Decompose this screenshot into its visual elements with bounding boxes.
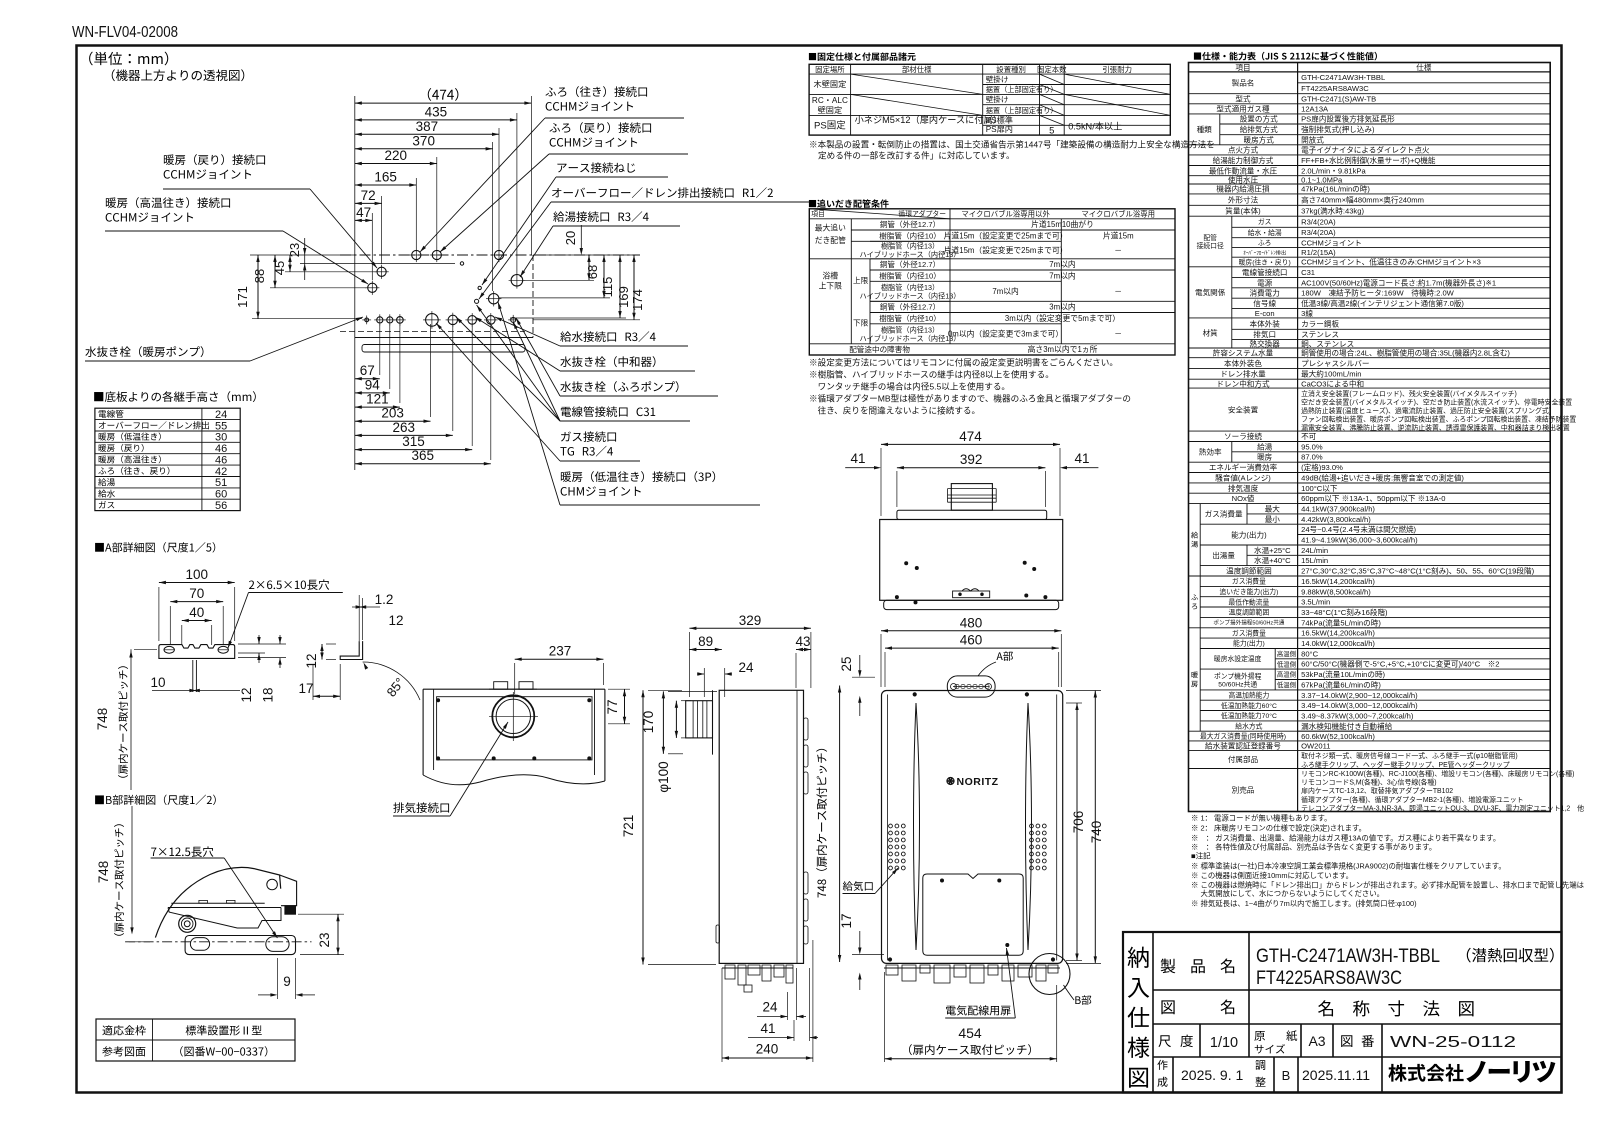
svg-text:最低作動流量: 最低作動流量 — [1229, 597, 1270, 606]
svg-text:本体外装色: 本体外装色 — [1224, 358, 1262, 368]
svg-text:24: 24 — [738, 660, 754, 675]
svg-text:固定本数: 固定本数 — [1037, 65, 1067, 74]
svg-text:748: 748 — [96, 861, 111, 884]
top view bottom row ports — [365, 318, 369, 322]
svg-text:給水方式: 給水方式 — [1235, 722, 1262, 731]
title block grid lines — [1152, 932, 1154, 1093]
svg-text:24L/min: 24L/min — [1301, 546, 1328, 555]
svg-text:329: 329 — [739, 613, 762, 628]
svg-text:高温側: 高温側 — [1277, 649, 1296, 658]
svg-text:180W 凍結予防ヒータ:169W 待機時:2.0W: 180W 凍結予防ヒータ:169W 待機時:2.0W — [1301, 288, 1455, 298]
spec table group 配管接続口径 — [1231, 216, 1233, 267]
svg-text:下限: 下限 — [853, 318, 869, 327]
spec table lower rows — [1189, 441, 1551, 443]
svg-text:24号~0.4号(2.4号未満は間欠燃焼): 24号~0.4号(2.4号未満は間欠燃焼) — [1301, 524, 1416, 534]
top view horizontal dimension chain — [355, 102, 532, 104]
front view NORITZ logo — [947, 777, 954, 784]
svg-text:100: 100 — [186, 567, 209, 582]
svg-text:70: 70 — [189, 586, 204, 601]
svg-text:20: 20 — [563, 231, 578, 245]
svg-text:30: 30 — [215, 432, 227, 444]
callout ガス接続口 TG R3／4 — [561, 431, 616, 442]
svg-text:銅管（外径12.7）: 銅管（外径12.7） — [880, 259, 940, 269]
svg-text:GTH-C2471AW3H-TBBL: GTH-C2471AW3H-TBBL — [1256, 945, 1440, 967]
svg-text:435: 435 — [425, 104, 448, 119]
top view port 給湯 — [511, 275, 523, 287]
title block label 製品名 — [1161, 959, 1176, 974]
svg-text:41: 41 — [850, 451, 865, 466]
A-part center tab — [192, 660, 194, 692]
A-part side dims 12 18 — [258, 635, 260, 644]
callout ふろ（往き）接続口 — [545, 86, 647, 97]
svg-text:循環アダプター: 循環アダプター — [898, 209, 946, 218]
side view dim 89 — [689, 649, 721, 651]
front view bottom dim 454 pitch — [885, 1058, 1057, 1060]
svg-text:樹脂管（内径10）: 樹脂管（内径10） — [879, 230, 941, 240]
svg-text:PS固定: PS固定 — [814, 120, 846, 132]
drawing title 名称寸法図 — [1318, 1000, 1473, 1016]
exhaust detail screws — [437, 699, 440, 702]
svg-text:循環アダプター(各種)、循環アダプターMB2-1(各種)、増: 循環アダプター(各種)、循環アダプターMB2-1(各種)、増設電源ユニット — [1301, 795, 1523, 804]
svg-text:出湯量: 出湯量 — [1212, 550, 1235, 560]
A-part heading ■A部詳細図（尺度1／5） — [95, 542, 215, 552]
svg-text:12A13A: 12A13A — [1301, 105, 1329, 114]
spec table outer frame — [1189, 63, 1551, 812]
svg-text:37kg(満水時:43kg): 37kg(満水時:43kg) — [1301, 206, 1364, 216]
B-part right block — [280, 875, 297, 906]
svg-text:※ ： 各特性値及び付属部品、別売品は予告なく変更する事があ: ※ ： 各特性値及び付属部品、別売品は予告なく変更する事があります。 — [1191, 842, 1436, 851]
svg-text:60: 60 — [215, 489, 227, 501]
svg-text:74kPa(流量5L/minの時): 74kPa(流量5L/minの時) — [1301, 617, 1381, 627]
svg-text:項目: 項目 — [811, 210, 825, 218]
svg-text:電源: 電源 — [1257, 278, 1273, 287]
svg-text:3.49~8.37kW(3,000~7,200kcal/h): 3.49~8.37kW(3,000~7,200kcal/h) — [1301, 712, 1414, 721]
svg-text:165: 165 — [374, 170, 397, 185]
fixing spec table grid — [809, 64, 1170, 135]
svg-text:7m以内: 7m以内 — [1049, 271, 1076, 281]
svg-text:暖房水設定温度: 暖房水設定温度 — [1214, 654, 1262, 663]
fitting height heading ■底板よりの各継手高さ（mm） — [94, 391, 256, 402]
top view port 暖房低温往き — [489, 294, 499, 304]
svg-text:49dB(給湯+追いだき+暖房:無響音室での測定値): 49dB(給湯+追いだき+暖房:無響音室での測定値) — [1301, 472, 1464, 482]
svg-text:ハイブリッドホース（内径13）: ハイブリッドホース（内径13） — [860, 291, 961, 300]
svg-text:カラー鋼板: カラー鋼板 — [1301, 318, 1339, 328]
svg-text:最小: 最小 — [1265, 514, 1281, 524]
spec table ふろ group — [1199, 576, 1201, 628]
svg-text:ポンプ揚外揚程50/60Hz共通: ポンプ揚外揚程50/60Hz共通 — [1213, 619, 1284, 627]
svg-text:C31: C31 — [1301, 268, 1315, 277]
svg-text:169: 169 — [616, 286, 631, 308]
svg-text:5: 5 — [1049, 126, 1054, 137]
svg-text:72: 72 — [361, 188, 376, 203]
svg-text:片道15m: 片道15m — [1103, 231, 1134, 241]
B-part cam body arc — [155, 867, 280, 937]
B-part callout 7×12.5長穴 — [151, 846, 213, 857]
svg-text:88: 88 — [252, 269, 267, 283]
svg-text:2.0L/min・9.81kPa: 2.0L/min・9.81kPa — [1301, 166, 1366, 175]
svg-text:ガス: ガス — [1258, 217, 1272, 226]
svg-text:12: 12 — [388, 613, 403, 628]
svg-text:18: 18 — [261, 687, 276, 702]
svg-text:3.49~14.0kW(3,000~12,000kcal/h: 3.49~14.0kW(3,000~12,000kcal/h) — [1301, 701, 1418, 710]
side view body — [719, 690, 803, 963]
svg-text:低温側: 低温側 — [1277, 680, 1296, 689]
front view top screws — [913, 693, 916, 696]
svg-text:片道15m10曲がり: 片道15m10曲がり — [1031, 219, 1094, 229]
svg-text:※本製品の設置・転倒防止の措置は、国土交通省告示第1447号: ※本製品の設置・転倒防止の措置は、国土交通省告示第1447号「建築設備の構造耐力… — [809, 139, 1215, 150]
svg-text:16.5kW(14,200kcal/h): 16.5kW(14,200kcal/h) — [1301, 577, 1375, 586]
svg-text:樹脂管（内径10）: 樹脂管（内径10） — [879, 313, 941, 323]
B-part base plate — [185, 936, 295, 955]
svg-text:往き、戻りを間違えないように接続する。: 往き、戻りを間違えないように接続する。 — [809, 405, 980, 416]
svg-text:480: 480 — [960, 615, 983, 630]
svg-text:387: 387 — [416, 119, 439, 134]
spec table 暖房 group — [1199, 628, 1201, 731]
A-part dims 100 70 40 — [159, 582, 235, 584]
svg-text:80°C: 80°C — [1301, 649, 1318, 658]
company logo 株式会社ノーリツ — [1388, 1064, 1463, 1082]
svg-text:87.0%: 87.0% — [1301, 453, 1323, 462]
front view body — [882, 691, 1063, 964]
svg-text:0.1~1.0MPa: 0.1~1.0MPa — [1301, 176, 1343, 185]
svg-text:7m以内: 7m以内 — [992, 286, 1019, 296]
svg-text:使用水圧: 使用水圧 — [1228, 175, 1259, 185]
rear view dim 474 — [881, 443, 1060, 445]
B-part centerline — [125, 941, 311, 943]
exhaust detail box — [423, 688, 605, 690]
svg-text:ガス消費量: ガス消費量 — [1232, 628, 1266, 637]
svg-text:25: 25 — [839, 656, 854, 671]
svg-text:－: － — [1114, 330, 1122, 339]
svg-text:据置（上部固定有り）: 据置（上部固定有り） — [986, 85, 1058, 94]
svg-text:※ 排気延長は、1~4曲がり7m以内で施工します。(排気筒口: ※ 排気延長は、1~4曲がり7m以内で施工します。(排気筒口径:φ100) — [1191, 899, 1417, 908]
callout 暖房（高温往き）接続口 — [106, 197, 230, 208]
svg-text:0m以内（設定変更で3mまで可）: 0m以内（設定変更で3mまで可） — [948, 329, 1063, 339]
frame ref table 適応金枠 — [96, 1019, 295, 1061]
svg-text:748: 748 — [95, 708, 110, 731]
svg-text:設置の方式: 設置の方式 — [1240, 114, 1278, 124]
svg-text:16.5kW(14,200kcal/h): 16.5kW(14,200kcal/h) — [1301, 629, 1375, 638]
svg-text:47kPa(16L/minの時): 47kPa(16L/minの時) — [1301, 185, 1370, 194]
svg-text:プレシャスシルバー: プレシャスシルバー — [1301, 359, 1369, 368]
svg-text:ふろ継手クリップ、ヘッダー継手クリップ、PE管ヘッダークリッ: ふろ継手クリップ、ヘッダー継手クリップ、PE管ヘッダークリップ — [1301, 760, 1510, 769]
reheating table header diag — [809, 209, 950, 219]
front view vent hole grids — [889, 824, 893, 828]
svg-text:365: 365 — [412, 448, 435, 463]
svg-text:PS扉内: PS扉内 — [986, 124, 1013, 134]
svg-text:12: 12 — [239, 687, 254, 702]
svg-text:銅管使用の場合:24L、樹脂管使用の場合:35L(機器内2.: 銅管使用の場合:24L、樹脂管使用の場合:35L(機器内2.8L含む) — [1301, 348, 1510, 358]
svg-text:壁掛け: 壁掛け — [986, 74, 1009, 84]
svg-text:熱交換器: 熱交換器 — [1250, 338, 1281, 348]
svg-text:R3/4(20A): R3/4(20A) — [1301, 218, 1336, 227]
svg-text:接続口径: 接続口径 — [1197, 241, 1224, 250]
svg-text:電気関係: 電気関係 — [1195, 287, 1226, 297]
svg-text:1/10: 1/10 — [1210, 1035, 1238, 1051]
svg-text:熱効率: 熱効率 — [1199, 447, 1222, 457]
callout アース接続ねじ — [557, 162, 635, 173]
svg-text:最大追い: 最大追い — [815, 223, 846, 233]
top view dimension extension lines — [530, 96, 532, 255]
svg-text:配管: 配管 — [1203, 233, 1217, 242]
callout 暖房（戻り）接続口 — [164, 154, 265, 165]
svg-text:製品名: 製品名 — [1232, 78, 1255, 88]
svg-text:温度調節範囲: 温度調節範囲 — [1226, 566, 1272, 576]
svg-text:空だき安全装置(バイメタルスイッチ)、空だき防止装置(水流ス: 空だき安全装置(バイメタルスイッチ)、空だき防止装置(水流スイッチ)、停電時安全… — [1301, 398, 1572, 407]
B-part slot holes — [190, 938, 209, 951]
svg-text:高温加熱能力: 高温加熱能力 — [1229, 691, 1270, 700]
title block vertical label 納入仕様図 — [1128, 947, 1149, 968]
side view right edge clips — [804, 718, 809, 740]
svg-text:95.0%: 95.0% — [1301, 442, 1323, 451]
side view dim 170 — [662, 691, 664, 753]
svg-text:CCHMジョイント: CCHMジョイント — [1301, 238, 1362, 247]
svg-text:51: 51 — [215, 477, 227, 489]
svg-text:46: 46 — [215, 443, 227, 455]
svg-text:460: 460 — [960, 633, 983, 648]
exhaust detail top tabs — [494, 682, 508, 690]
svg-text:NORITZ: NORITZ — [957, 776, 999, 788]
top view ports on centerline — [412, 250, 421, 259]
svg-text:4.42kW(3,800kcal/h): 4.42kW(3,800kcal/h) — [1301, 515, 1371, 524]
svg-text:だき配管: だき配管 — [815, 235, 846, 245]
svg-text:配管途中の障害物: 配管途中の障害物 — [849, 344, 910, 354]
svg-text:370: 370 — [412, 133, 435, 148]
svg-text:※ ： ガス消費量、出湯量、給湯能力はガス種13Aの値です。: ※ ： ガス消費量、出湯量、給湯能力はガス種13Aの値です。ガス種により若干異な… — [1191, 834, 1500, 843]
svg-text:※ 1： 電源コードが無い機種もあります。: ※ 1： 電源コードが無い機種もあります。 — [1191, 813, 1332, 822]
front view A-part hanger oval — [947, 676, 995, 697]
svg-text:721: 721 — [621, 815, 636, 838]
svg-text:上下限: 上下限 — [819, 281, 843, 290]
svg-text:テレコンアダプターMA-3,NR-3A、即湯ユニットQU-3: テレコンアダプターMA-3,NR-3A、即湯ユニットQU-3、DVU-3F、電力… — [1301, 803, 1584, 812]
svg-text:※ この機器は側面近接10mmに対応しています。: ※ この機器は側面近接10mmに対応しています。 — [1191, 871, 1353, 880]
svg-text:R1/2(15A): R1/2(15A) — [1301, 248, 1336, 257]
fixing spec diagonal slashes — [851, 74, 983, 94]
svg-text:マイクロバブル浴専用: マイクロバブル浴専用 — [1081, 210, 1155, 219]
svg-text:(定格)93.0%: (定格)93.0% — [1301, 462, 1343, 472]
svg-text:0.5kN/本以上: 0.5kN/本以上 — [1068, 121, 1122, 132]
svg-text:高温側: 高温側 — [1277, 670, 1296, 679]
svg-text:本体外装: 本体外装 — [1250, 318, 1281, 328]
svg-text:45: 45 — [272, 261, 287, 275]
rear view dim 392 and 41s — [897, 467, 1046, 469]
callout オーバーフロー／ドレン排出接続口 — [552, 187, 773, 198]
svg-text:CaCO3による中和: CaCO3による中和 — [1301, 378, 1364, 388]
front view dim 480 — [881, 630, 1061, 632]
svg-text:14.0kW(12,000kcal/h): 14.0kW(12,000kcal/h) — [1301, 639, 1375, 648]
svg-text:CCHMジョイント、低温往きのみ:CHMジョイント×3: CCHMジョイント、低温往きのみ:CHMジョイント×3 — [1301, 257, 1481, 267]
fitting height table grid — [95, 408, 240, 510]
svg-text:ドレン中和方式: ドレン中和方式 — [1216, 378, 1270, 388]
svg-text:WN-FLV04-02008: WN-FLV04-02008 — [72, 24, 178, 41]
exhaust detail inner panel — [437, 697, 592, 760]
svg-text:240: 240 — [756, 1042, 779, 1057]
spec table group 材質 — [1231, 318, 1233, 348]
svg-text:10: 10 — [150, 675, 165, 690]
svg-text:材質: 材質 — [1203, 328, 1219, 338]
svg-text:24: 24 — [215, 409, 227, 421]
svg-text:エネルギー消費効率: エネルギー消費効率 — [1209, 462, 1278, 472]
svg-text:信号線: 信号線 — [1253, 298, 1276, 308]
svg-text:電子イグナイタによるダイレクト点火: 電子イグナイタによるダイレクト点火 — [1301, 145, 1430, 155]
top view bottom dimension chain — [355, 378, 380, 380]
svg-text:能力(出力): 能力(出力) — [1231, 529, 1267, 539]
top view bottom bracket strip — [362, 345, 525, 353]
svg-text:17: 17 — [839, 913, 854, 928]
svg-text:3.37~14.0kW(2,900~12,000kcal/h: 3.37~14.0kW(2,900~12,000kcal/h) — [1301, 691, 1418, 700]
callout 水抜き栓（ふろポンプ） — [560, 381, 678, 392]
svg-text:203: 203 — [381, 406, 404, 421]
svg-text:15L/min: 15L/min — [1301, 556, 1328, 565]
svg-text:ステンレス: ステンレス — [1301, 330, 1339, 339]
svg-text:銅、ステンレス: 銅、ステンレス — [1301, 338, 1354, 348]
exhaust detail break wave — [423, 775, 605, 785]
svg-text:9.88kW(8,500kcal/h): 9.88kW(8,500kcal/h) — [1301, 587, 1371, 596]
top view right extension lines — [533, 254, 640, 256]
top view port 暖房高温往き — [368, 283, 377, 292]
side view bottom pipes — [722, 967, 793, 969]
svg-text:給水装置認証登録番号: 給水装置認証登録番号 — [1205, 740, 1281, 750]
svg-text:開放式: 開放式 — [1301, 135, 1324, 145]
svg-text:点火方式: 点火方式 — [1228, 145, 1259, 155]
callout ふろ（戻り）接続口 — [549, 122, 651, 133]
svg-text:NOx値: NOx値 — [1232, 493, 1255, 503]
svg-text:237: 237 — [549, 644, 572, 659]
A-part callout 2×6.5×10長穴 — [249, 579, 329, 590]
A-part section profile (right) — [340, 641, 362, 659]
B-part dim 23 — [337, 914, 339, 954]
svg-text:低温加熱能力60°C: 低温加熱能力60°C — [1221, 701, 1277, 710]
svg-text:115: 115 — [600, 277, 615, 298]
svg-text:別売品: 別売品 — [1232, 785, 1255, 795]
spec table value column row lines — [1298, 441, 1551, 443]
svg-text:33~48°C(1°C刻み16段階): 33~48°C(1°C刻み16段階) — [1301, 607, 1388, 617]
A-part slot holes — [164, 646, 174, 653]
svg-text:許容システム水量: 許容システム水量 — [1213, 348, 1274, 358]
svg-text:7m以内: 7m以内 — [1049, 259, 1076, 269]
svg-text:消費電力: 消費電力 — [1250, 288, 1280, 298]
rear view top cap strip — [897, 510, 1047, 519]
svg-text:給湯: 給湯 — [1257, 441, 1273, 451]
svg-text:据置（上部固定有り）: 据置（上部固定有り） — [986, 106, 1058, 115]
side view left small bump — [716, 925, 720, 943]
svg-text:壁掛け: 壁掛け — [986, 94, 1009, 104]
svg-text:44.1kW(37,900kcal/h): 44.1kW(37,900kcal/h) — [1301, 505, 1375, 514]
svg-text:OW2011: OW2011 — [1301, 741, 1330, 750]
svg-text:27°C,30°C,32°C,35°C,37°C~48°C(: 27°C,30°C,32°C,35°C,37°C~48°C(1°C刻み)、50、… — [1301, 566, 1534, 576]
svg-text:41: 41 — [1074, 451, 1089, 466]
exhaust detail dim 77 — [624, 689, 626, 724]
svg-text:低温加熱能力70°C: 低温加熱能力70°C — [1221, 711, 1277, 720]
spec table 熱効率 group — [1231, 442, 1233, 463]
svg-text:仕様: 仕様 — [1416, 62, 1432, 72]
A-part bracket body — [159, 645, 235, 659]
rear view bottom strip — [884, 600, 1059, 609]
spec table 安全装置 row — [1189, 430, 1551, 432]
front view inner columns — [887, 695, 889, 961]
fixing spec heading ■固定仕様と付属部品諸元 — [809, 52, 916, 61]
B-part arm — [171, 902, 264, 904]
rear view exhaust collar — [951, 484, 992, 511]
svg-text:温度調節範囲: 温度調節範囲 — [1229, 608, 1270, 617]
side view dim 24 — [697, 673, 704, 675]
svg-text:種類: 種類 — [1197, 124, 1213, 134]
svg-text:付属部品: 付属部品 — [1228, 754, 1259, 764]
callout 電線管接続口 C31 — [561, 406, 655, 417]
svg-text:FF+FB+水比例制御(水量サーボ)+Q機能: FF+FB+水比例制御(水量サーボ)+Q機能 — [1301, 155, 1436, 165]
svg-text:ドレン排水量: ドレン排水量 — [1220, 369, 1266, 379]
B-part hatched block — [285, 906, 296, 915]
svg-text:追いだき能力(出力): 追いだき能力(出力) — [1219, 587, 1278, 596]
spec table group 電気関係 — [1231, 267, 1233, 318]
svg-text:60.6kW(52,100kcal/h): 60.6kW(52,100kcal/h) — [1301, 732, 1375, 741]
svg-text:3.5L/min: 3.5L/min — [1301, 598, 1330, 607]
svg-text:FT4225ARS8AW3C: FT4225ARS8AW3C — [1301, 84, 1369, 93]
title block outer frame — [1123, 932, 1562, 1093]
svg-text:小ネジM5×12（扉内ケースに付属）: 小ネジM5×12（扉内ケースに付属） — [855, 114, 1002, 125]
svg-text:GTH-C2471(S)AW-TB: GTH-C2471(S)AW-TB — [1301, 95, 1376, 104]
svg-text:立消え安全装置(フレームロッド)、残火安全装置(バイメタルス: 立消え安全装置(フレームロッド)、残火安全装置(バイメタルスイッチ) — [1301, 389, 1517, 398]
svg-text:174: 174 — [630, 289, 645, 311]
svg-text:42: 42 — [215, 466, 227, 478]
svg-text:上限: 上限 — [853, 276, 869, 285]
callout 水抜き栓（中和器） — [560, 356, 655, 367]
svg-text:排気口: 排気口 — [1253, 329, 1276, 339]
svg-text:質量(本体): 質量(本体) — [1225, 206, 1261, 216]
callout 電線管 extra leaders — [513, 322, 560, 421]
rear view center bracket — [953, 591, 990, 598]
front view wiring door — [923, 874, 1023, 955]
front view dims 706 740 right — [1076, 703, 1078, 961]
svg-text:PS標準: PS標準 — [986, 115, 1013, 125]
svg-text:GTH-C2471AW3H-TBBL: GTH-C2471AW3H-TBBL — [1301, 73, 1385, 82]
svg-text:171: 171 — [235, 286, 250, 308]
top view left vertical dims 23 45 88 171 — [304, 238, 306, 280]
spec table header row — [1189, 71, 1551, 73]
title block label 原紙サイズ — [1254, 1031, 1265, 1041]
callout 水抜き栓（暖房ポンプ） — [85, 346, 203, 357]
svg-text:※ この機器は燃焼時に「ドレン排出口」からドレンが排出されま: ※ この機器は燃焼時に「ドレン排出口」からドレンが排出されます。必ず排水配管を設… — [1191, 880, 1585, 889]
exhaust detail dim 237 — [515, 658, 604, 660]
side view bottom dims 24 41 240 — [787, 992, 789, 1020]
svg-text:外形寸法: 外形寸法 — [1228, 194, 1259, 204]
svg-text:銅管（外径12.7）: 銅管（外径12.7） — [880, 219, 940, 229]
svg-text:ガス消費量: ガス消費量 — [1205, 509, 1243, 519]
svg-text:B: B — [1282, 1068, 1291, 1083]
svg-text:■注記: ■注記 — [1191, 851, 1211, 861]
top view small ports アース・ドレン — [478, 286, 481, 289]
spec table 給湯 group — [1199, 504, 1201, 576]
svg-text:固定場所: 固定場所 — [815, 65, 845, 74]
svg-text:設置種別: 設置種別 — [996, 65, 1026, 74]
svg-text:給湯能力制御方式: 給湯能力制御方式 — [1213, 155, 1274, 165]
front view callout 給気口 — [843, 881, 873, 891]
svg-text:※ 2： 床暖房リモコンの仕様で設定(決定)されます。: ※ 2： 床暖房リモコンの仕様で設定(決定)されます。 — [1191, 823, 1366, 832]
svg-text:12: 12 — [304, 653, 319, 668]
front view bottom pipes — [884, 967, 1060, 969]
front view dim 460 — [885, 647, 1059, 649]
svg-text:能力(出力): 能力(出力) — [1233, 639, 1265, 648]
subtitle (機器上方よりの透視図) — [112, 69, 245, 81]
B-part pivot — [179, 915, 196, 932]
svg-text:リモコンコードS,M(各種)、3心信号線(各種): リモコンコードS,M(各種)、3心信号線(各種) — [1301, 778, 1437, 787]
svg-text:暖房(往き・戻り): 暖房(往き・戻り) — [1239, 257, 1291, 266]
svg-text:マイクロバブル浴専用以外: マイクロバブル浴専用以外 — [961, 210, 1050, 219]
svg-text:型式: 型式 — [1235, 94, 1251, 104]
side view dim φ100 — [675, 701, 677, 738]
svg-text:474: 474 — [959, 429, 982, 444]
svg-text:リモコンRC-K100W(各種)、RC-J100(各種)、増: リモコンRC-K100W(各種)、RC-J100(各種)、増設リモコン(各種)、… — [1301, 769, 1574, 778]
